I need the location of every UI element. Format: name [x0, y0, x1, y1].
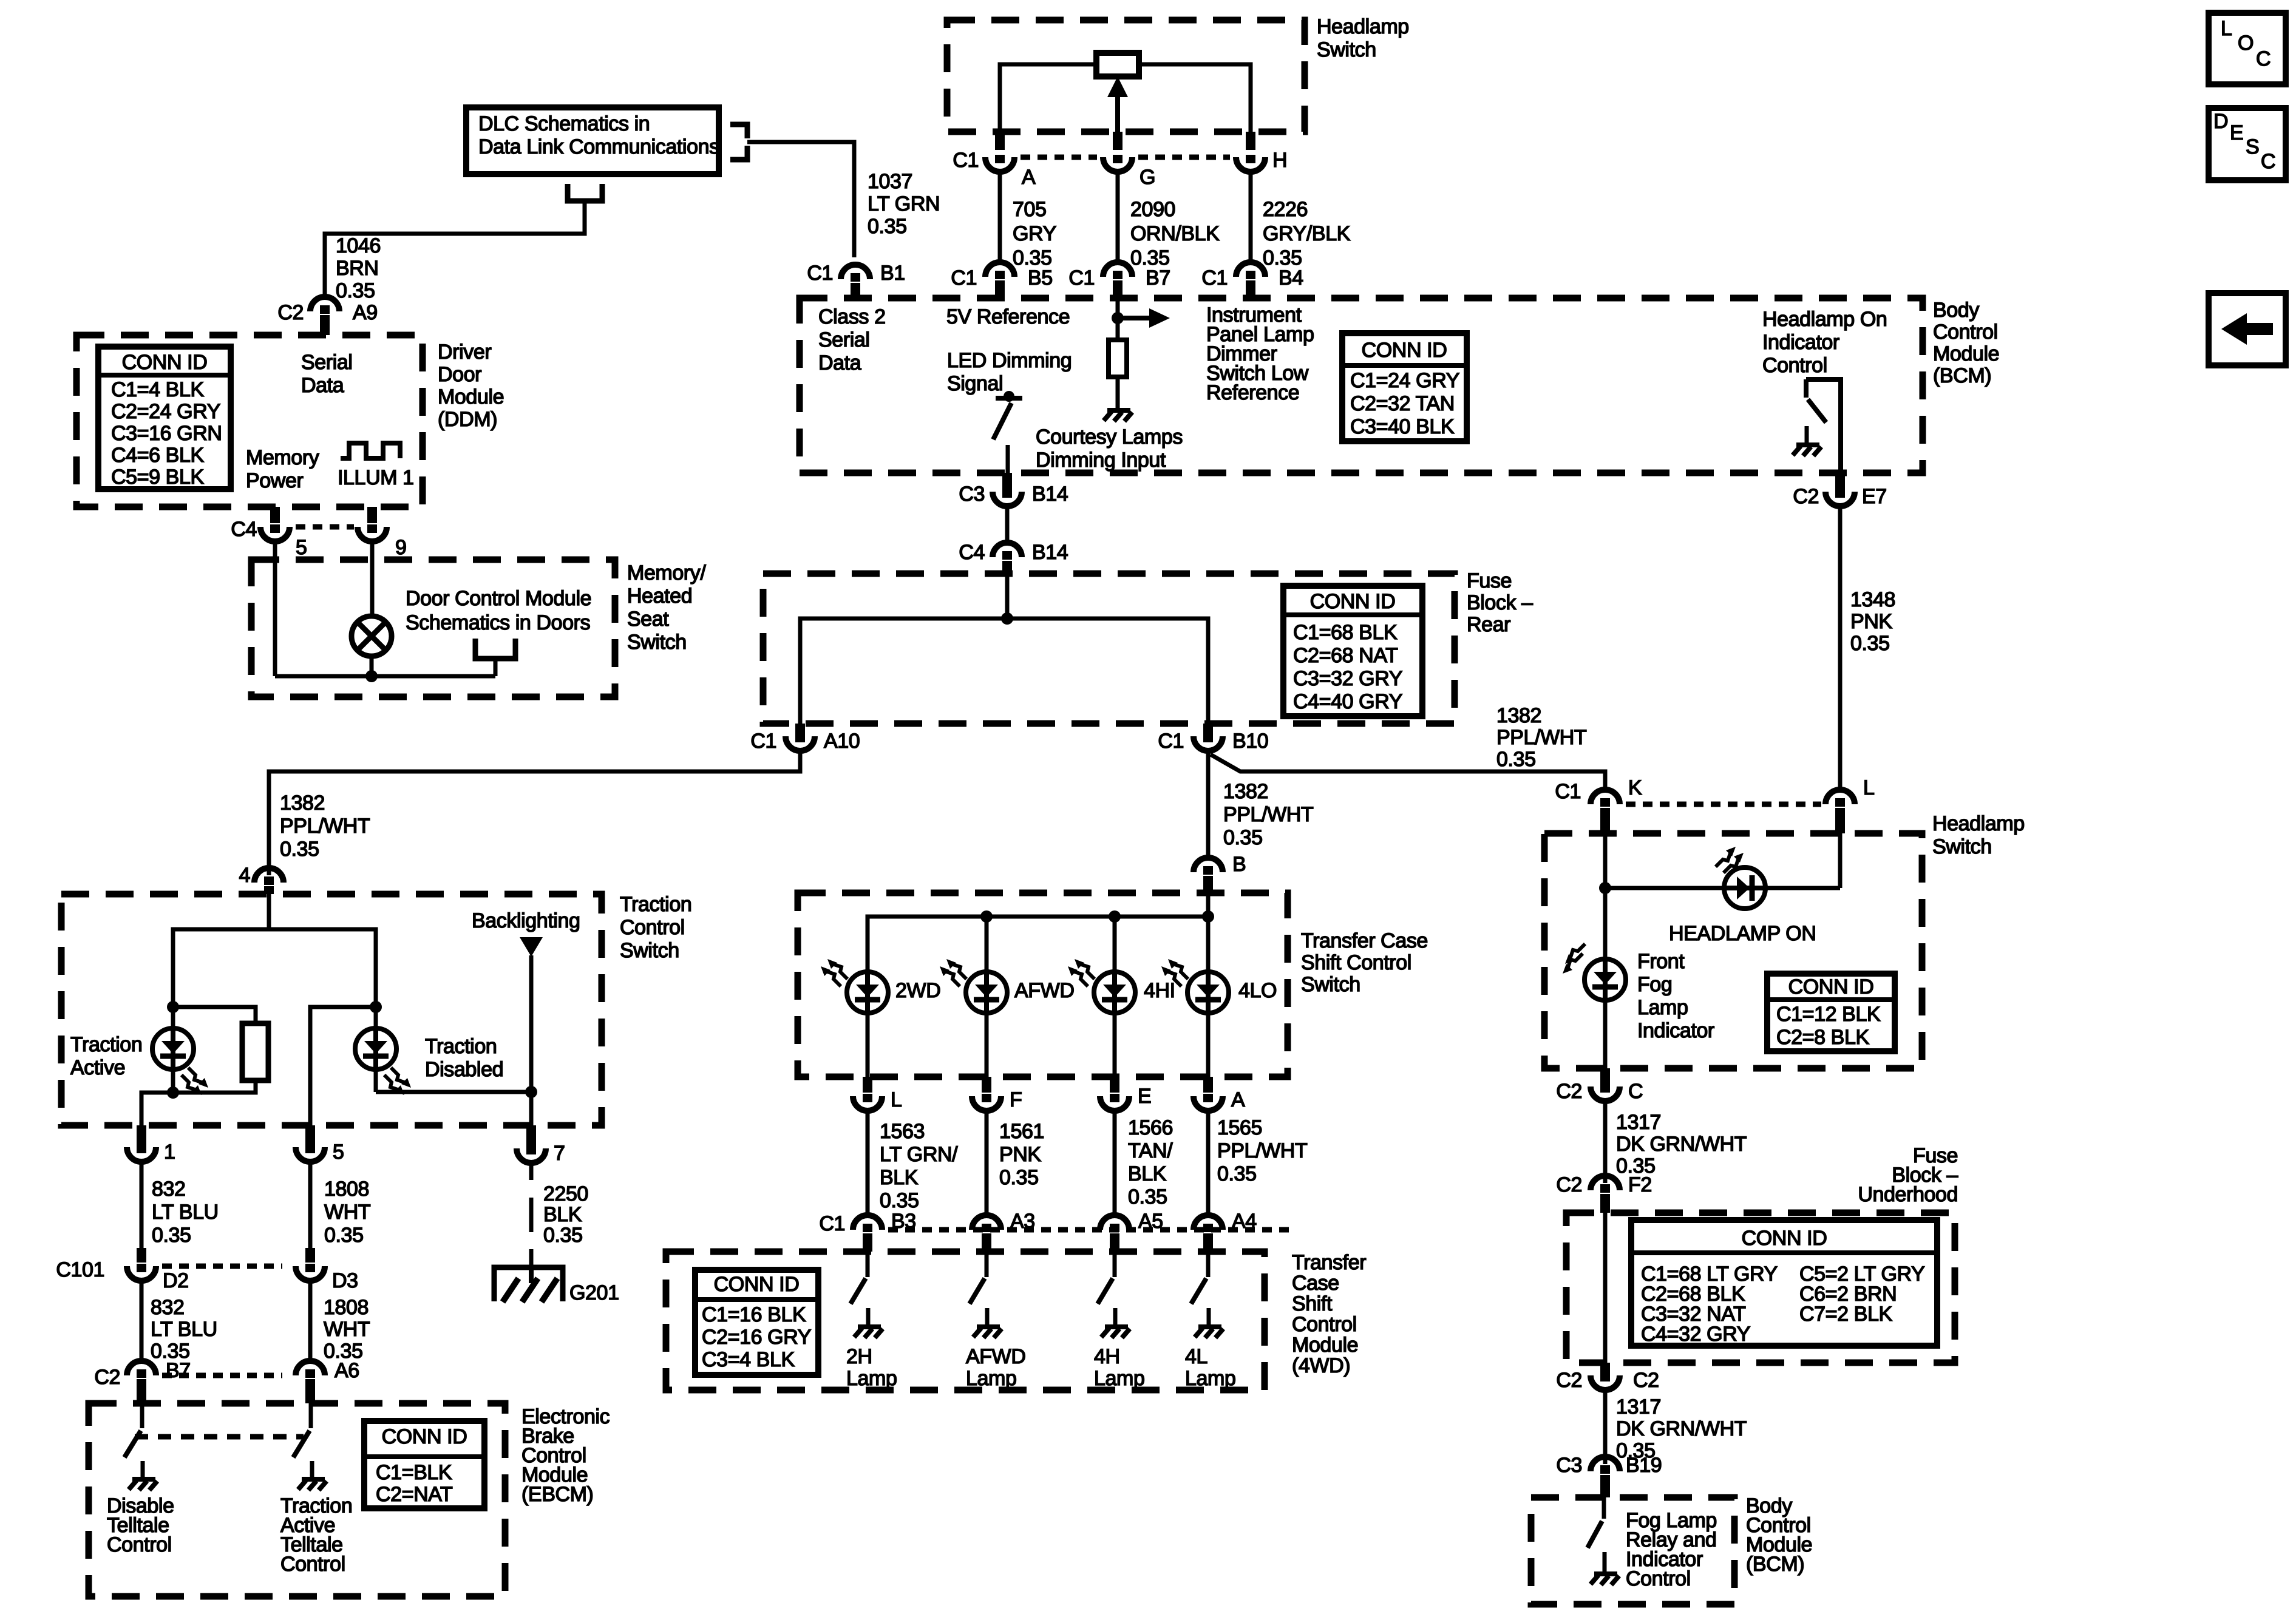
svg-text:5: 5 — [333, 1141, 344, 1164]
svg-text:C3=16 GRN: C3=16 GRN — [111, 422, 222, 445]
svg-text:L: L — [2221, 17, 2232, 40]
svg-text:C2=24 GRY: C2=24 GRY — [111, 400, 220, 423]
svg-text:1037: 1037 — [868, 170, 912, 193]
ground (courtesy lamps dimming input) — [1104, 410, 1132, 421]
svg-text:C3: C3 — [1556, 1454, 1582, 1477]
transfer case bus — [1206, 893, 1211, 917]
svg-text:Control: Control — [1626, 1567, 1691, 1590]
svg-text:BLK: BLK — [1128, 1162, 1167, 1185]
wire H to B4 — [1249, 172, 1253, 262]
2H lamp driver switch — [866, 1252, 870, 1277]
back-arrow navigation box — [2209, 293, 2286, 365]
inline dotted line A-G — [1021, 155, 1097, 160]
svg-text:5V Reference: 5V Reference — [946, 305, 1070, 328]
wire from traction disabled to backlight wire — [376, 1090, 531, 1094]
wire G to B7 — [1116, 172, 1120, 262]
EBCM CONN ID table — [364, 1421, 484, 1508]
svg-text:Control: Control — [1933, 320, 1998, 344]
inline dotted line G-H — [1138, 155, 1230, 160]
svg-text:Serial: Serial — [818, 328, 870, 351]
continuation bracket (door control module) — [475, 639, 515, 659]
svg-text:C3=40 BLK: C3=40 BLK — [1350, 415, 1455, 438]
svg-text:CONN ID: CONN ID — [1310, 590, 1396, 613]
connector A3 — [972, 1215, 1001, 1230]
svg-text:D: D — [2213, 110, 2228, 133]
svg-text:Switch: Switch — [1317, 38, 1376, 61]
wire to ground below resistor — [1116, 377, 1120, 408]
headlamp switch CONN ID table — [1767, 974, 1895, 1051]
svg-text:C1=12 BLK: C1=12 BLK — [1776, 1003, 1881, 1026]
headlamp on indicator switch (in BCM) — [1806, 379, 1841, 473]
svg-text:AFWD: AFWD — [966, 1345, 1026, 1368]
4LO LED — [1187, 972, 1229, 1013]
connector A — [1203, 1077, 1213, 1093]
svg-text:Class 2: Class 2 — [818, 305, 886, 328]
svg-text:C: C — [2256, 47, 2271, 70]
wire from DLC bracket to C1 B1 — [747, 142, 854, 257]
DDM CONN ID table — [98, 347, 231, 489]
svg-text:C1: C1 — [807, 262, 833, 285]
svg-text:GRY: GRY — [1013, 222, 1056, 245]
svg-text:Data: Data — [818, 351, 861, 375]
connector F — [982, 1077, 991, 1093]
svg-text:C3=32 GRY: C3=32 GRY — [1293, 667, 1402, 690]
svg-text:0.35: 0.35 — [1223, 826, 1263, 849]
svg-text:0.35: 0.35 — [880, 1189, 919, 1212]
svg-text:B14: B14 — [1032, 483, 1068, 506]
svg-text:K: K — [1628, 776, 1642, 799]
svg-text:C1: C1 — [819, 1212, 845, 1235]
wire to shift control module — [1113, 1111, 1117, 1215]
svg-text:LT GRN/: LT GRN/ — [880, 1143, 958, 1166]
svg-text:Indicator: Indicator — [1637, 1019, 1714, 1042]
svg-text:A4: A4 — [1232, 1210, 1257, 1233]
svg-text:0.35: 0.35 — [336, 279, 375, 302]
Headlamp Switch box (top) — [947, 20, 1305, 132]
Body Control Module box (bottom right) — [1531, 1497, 1734, 1604]
svg-text:C1=16 BLK: C1=16 BLK — [702, 1303, 806, 1326]
svg-text:CONN ID: CONN ID — [1362, 339, 1447, 362]
svg-text:C1: C1 — [1158, 730, 1184, 753]
dimmer potentiometer — [1096, 53, 1139, 76]
svg-text:WHT: WHT — [324, 1201, 370, 1224]
LED lower wire — [866, 1013, 870, 1077]
svg-text:Case: Case — [1292, 1272, 1339, 1295]
svg-text:Control: Control — [280, 1553, 345, 1576]
svg-text:HEADLAMP ON: HEADLAMP ON — [1669, 922, 1816, 945]
backlighting wire — [529, 955, 534, 1125]
svg-text:S: S — [2246, 135, 2259, 158]
svg-text:Body: Body — [1933, 299, 1979, 322]
svg-text:B7: B7 — [1146, 266, 1170, 290]
wire E7 to L — [1838, 506, 1843, 790]
svg-text:O: O — [2238, 32, 2254, 55]
svg-text:Disabled: Disabled — [425, 1058, 503, 1081]
svg-text:E: E — [2230, 121, 2243, 144]
svg-text:Switch: Switch — [627, 631, 687, 654]
svg-text:1808: 1808 — [324, 1178, 369, 1201]
svg-text:2250: 2250 — [543, 1182, 588, 1205]
svg-text:C1: C1 — [951, 266, 977, 290]
courtesy lamps junction and arrow — [1116, 298, 1120, 340]
svg-text:Rear: Rear — [1467, 613, 1510, 636]
wire D3 to A6 — [308, 1281, 313, 1361]
connector D3 — [305, 1248, 315, 1263]
4L lamp driver switch — [1206, 1252, 1211, 1277]
svg-text:Headlamp: Headlamp — [1932, 812, 2025, 835]
svg-text:0.35: 0.35 — [868, 215, 907, 238]
LED lower wire — [1206, 1013, 1211, 1077]
svg-text:705: 705 — [1013, 198, 1047, 221]
Electronic Brake Control Module box — [89, 1403, 505, 1596]
connector pin 9 (ILLUM 1) — [367, 507, 377, 523]
wire to shift control module — [985, 1111, 989, 1215]
svg-text:C1: C1 — [953, 149, 979, 172]
svg-text:Switch: Switch — [1301, 973, 1360, 996]
connector C1 B10 — [1203, 724, 1213, 736]
svg-text:PNK: PNK — [1850, 610, 1892, 633]
svg-text:Door: Door — [438, 363, 481, 386]
svg-text:0.35: 0.35 — [543, 1224, 583, 1247]
svg-text:2226: 2226 — [1263, 198, 1308, 221]
svg-text:C2: C2 — [94, 1366, 120, 1389]
connector C1 A10 — [795, 724, 805, 736]
Driver Door Module (DDM) box — [76, 335, 423, 507]
wire to shift control module — [866, 1111, 870, 1215]
svg-text:2090: 2090 — [1130, 198, 1175, 221]
connector C2 C2 — [1600, 1363, 1610, 1373]
svg-text:C4=32 GRY: C4=32 GRY — [1641, 1323, 1750, 1346]
wire through fuse block underhood — [1603, 1213, 1608, 1363]
svg-text:A10: A10 — [824, 730, 860, 753]
svg-text:G201: G201 — [569, 1281, 619, 1304]
svg-text:C1=24 GRY: C1=24 GRY — [1350, 369, 1459, 392]
LED lower wire — [985, 1013, 989, 1077]
svg-text:L: L — [891, 1088, 902, 1111]
svg-text:4: 4 — [239, 864, 250, 887]
svg-text:A: A — [1022, 166, 1036, 189]
svg-text:Shift Control: Shift Control — [1301, 951, 1411, 974]
wire to connector 1 — [141, 1093, 173, 1125]
svg-text:C2: C2 — [277, 301, 304, 324]
svg-text:(BCM): (BCM) — [1746, 1553, 1804, 1576]
resistor parallel to traction active LED — [173, 1007, 256, 1023]
pot wiper arrow — [1115, 95, 1120, 146]
svg-text:Data: Data — [301, 374, 344, 397]
Body Control Module (BCM) box — [800, 298, 1923, 473]
connector H — [1246, 132, 1255, 150]
svg-text:C1=4 BLK: C1=4 BLK — [111, 378, 204, 401]
svg-text:5: 5 — [296, 536, 307, 559]
Memory/Heated Seat Switch box — [251, 560, 615, 697]
connector C2 E7 — [1835, 473, 1845, 489]
svg-text:C7=2 BLK: C7=2 BLK — [1799, 1303, 1892, 1326]
switch contact + ground (headlamp on indicator) — [1805, 426, 1809, 443]
svg-text:Headlamp: Headlamp — [1317, 15, 1409, 38]
pot right wire — [1139, 64, 1251, 132]
svg-text:CONN ID: CONN ID — [122, 351, 208, 374]
svg-text:CONN ID: CONN ID — [714, 1273, 800, 1296]
svg-text:C1: C1 — [1201, 266, 1228, 290]
svg-text:A6: A6 — [335, 1359, 359, 1382]
svg-text:Module: Module — [1933, 342, 1999, 365]
disable telltale switch — [140, 1403, 144, 1428]
svg-text:Block –: Block – — [1467, 591, 1533, 614]
svg-text:PPL/WHT: PPL/WHT — [1496, 726, 1586, 749]
svg-text:B: B — [1232, 853, 1246, 876]
wire up to continuation bracket — [494, 659, 498, 676]
fog lamp relay switch — [1602, 1497, 1606, 1519]
svg-text:(BCM): (BCM) — [1933, 364, 1991, 387]
svg-text:C2: C2 — [1633, 1369, 1659, 1392]
svg-text:4L: 4L — [1185, 1345, 1207, 1368]
svg-text:7: 7 — [554, 1142, 565, 1165]
shift control module CONN ID table — [695, 1270, 818, 1375]
svg-text:L: L — [1863, 776, 1875, 799]
connector C1 A (headlamp switch) — [995, 132, 1005, 150]
svg-text:C2=8 BLK: C2=8 BLK — [1776, 1026, 1869, 1049]
svg-text:1566: 1566 — [1128, 1116, 1173, 1139]
inline dotted line K-L — [1626, 802, 1821, 807]
svg-text:C4: C4 — [959, 541, 985, 564]
square-wave symbol above ILLUM 1 — [341, 443, 400, 458]
wire B10 to headlamp switch K — [1211, 754, 1605, 790]
inline dotted line transfer case row — [888, 1227, 1293, 1233]
svg-text:BLK: BLK — [543, 1203, 582, 1226]
AFWD lamp driver switch — [985, 1252, 989, 1277]
svg-text:1808: 1808 — [324, 1296, 369, 1319]
svg-text:Module: Module — [438, 385, 504, 408]
svg-text:E7: E7 — [1862, 485, 1887, 508]
svg-text:WHT: WHT — [324, 1318, 370, 1341]
AFWD LED — [966, 972, 1007, 1013]
svg-text:LT GRN: LT GRN — [868, 192, 940, 215]
svg-text:H: H — [1272, 149, 1287, 172]
traction active LED branch — [171, 1007, 175, 1093]
svg-text:A9: A9 — [353, 301, 378, 324]
svg-text:C2=16 GRY: C2=16 GRY — [702, 1326, 811, 1349]
svg-text:0.35: 0.35 — [280, 838, 319, 861]
svg-text:DK GRN/WHT: DK GRN/WHT — [1616, 1133, 1747, 1156]
svg-text:B1: B1 — [880, 262, 905, 285]
svg-text:F: F — [1010, 1088, 1022, 1111]
Fuse Block - Rear box — [763, 574, 1455, 724]
svg-text:PPL/WHT: PPL/WHT — [280, 815, 370, 838]
svg-text:C2=32 TAN: C2=32 TAN — [1350, 392, 1455, 415]
svg-text:Indicator: Indicator — [1762, 331, 1839, 354]
connector 5 — [305, 1125, 315, 1145]
svg-text:1565: 1565 — [1217, 1116, 1262, 1139]
svg-text:0.35: 0.35 — [1128, 1185, 1167, 1209]
svg-text:TAN/: TAN/ — [1128, 1139, 1173, 1162]
svg-text:ILLUM 1: ILLUM 1 — [338, 466, 414, 489]
svg-text:1: 1 — [164, 1141, 175, 1164]
connector L (transfer case) — [863, 1077, 872, 1093]
fuse block rear internal bus — [1005, 574, 1010, 619]
junction at lamp bottom — [365, 670, 378, 682]
svg-text:C1: C1 — [750, 730, 776, 753]
svg-text:C1=68 BLK: C1=68 BLK — [1293, 621, 1398, 644]
connector C4 B14 — [993, 543, 1022, 557]
svg-text:B19: B19 — [1626, 1454, 1662, 1477]
svg-text:1046: 1046 — [336, 234, 381, 257]
HEADLAMP ON LED — [1724, 867, 1765, 909]
4HI LED — [1094, 972, 1135, 1013]
svg-text:C2: C2 — [1556, 1173, 1582, 1196]
svg-text:1317: 1317 — [1616, 1111, 1661, 1134]
connector 7 — [526, 1125, 536, 1146]
svg-text:Memory/: Memory/ — [627, 561, 706, 585]
svg-text:C101: C101 — [56, 1258, 104, 1281]
inline dotted line B7-A6 — [162, 1373, 282, 1378]
junction dots traction bus — [167, 1001, 179, 1013]
connector C101 D2 — [137, 1248, 146, 1263]
LED dimming signal switch — [1004, 391, 1014, 402]
svg-text:F2: F2 — [1628, 1173, 1652, 1196]
traction disabled LED branch — [310, 1007, 376, 1125]
lamp bottom wire and bus — [370, 656, 374, 676]
svg-text:C2: C2 — [1793, 485, 1819, 508]
svg-text:A3: A3 — [1010, 1210, 1035, 1233]
svg-text:2H: 2H — [846, 1345, 872, 1368]
Traction Control Switch box — [61, 894, 602, 1125]
traction active telltale switch — [309, 1403, 313, 1428]
svg-text:0.35: 0.35 — [1850, 632, 1890, 655]
svg-text:Seat: Seat — [627, 608, 669, 631]
Transfer Case Shift Control Module box — [666, 1252, 1265, 1390]
wire C2 to B19 — [1603, 1390, 1608, 1464]
svg-text:Dimming Input: Dimming Input — [1036, 449, 1166, 472]
svg-text:LT BLU: LT BLU — [151, 1318, 217, 1341]
svg-text:1561: 1561 — [999, 1120, 1044, 1143]
svg-text:0.35: 0.35 — [1496, 748, 1536, 771]
svg-text:Switch: Switch — [620, 939, 679, 962]
wire from 9 to illumination lamp — [370, 541, 375, 617]
svg-text:Reference: Reference — [1206, 381, 1299, 404]
svg-text:BRN: BRN — [336, 257, 379, 280]
svg-text:0.35: 0.35 — [152, 1224, 191, 1247]
svg-text:Switch: Switch — [1932, 835, 1992, 858]
svg-text:C1=BLK: C1=BLK — [376, 1461, 452, 1484]
svg-text:1563: 1563 — [880, 1120, 925, 1143]
wire to shift control module — [1206, 1111, 1211, 1215]
svg-text:Traction: Traction — [620, 893, 691, 916]
svg-text:2WD: 2WD — [895, 979, 940, 1002]
svg-text:DLC Schematics in: DLC Schematics in — [478, 112, 650, 135]
svg-text:B4: B4 — [1279, 266, 1303, 290]
svg-text:LED Dimming: LED Dimming — [947, 349, 1072, 372]
backlighting antenna triangle — [520, 937, 543, 957]
Fuse Block - Underhood box — [1566, 1213, 1955, 1363]
svg-text:Shift: Shift — [1292, 1292, 1333, 1315]
svg-text:Serial: Serial — [301, 351, 353, 374]
wire 1 to C101 — [140, 1162, 144, 1248]
svg-text:B10: B10 — [1232, 730, 1268, 753]
svg-text:Control: Control — [620, 916, 685, 939]
svg-text:1382: 1382 — [1496, 704, 1541, 727]
svg-text:C: C — [1628, 1080, 1643, 1103]
svg-text:Memory: Memory — [246, 446, 319, 469]
DLC Schematics reference box — [466, 107, 719, 174]
connector C3 B14 — [1002, 473, 1012, 489]
svg-text:0.35: 0.35 — [1217, 1162, 1257, 1185]
svg-text:4HI: 4HI — [1144, 979, 1175, 1002]
svg-text:Fog: Fog — [1637, 973, 1672, 996]
svg-text:4H: 4H — [1094, 1345, 1120, 1368]
Headlamp Switch box (right) — [1544, 833, 1922, 1068]
connector G — [1113, 132, 1123, 150]
svg-text:C: C — [2261, 150, 2275, 173]
svg-text:C1: C1 — [1555, 780, 1581, 803]
svg-text:D3: D3 — [332, 1269, 358, 1292]
svg-text:4LO: 4LO — [1238, 979, 1277, 1002]
2WD LED — [847, 972, 888, 1013]
svg-text:C2: C2 — [1556, 1369, 1582, 1392]
fuse block underhood CONN ID table — [1631, 1220, 1937, 1346]
svg-text:A5: A5 — [1138, 1210, 1163, 1233]
svg-text:Traction: Traction — [425, 1035, 497, 1058]
svg-text:Front: Front — [1637, 950, 1685, 973]
svg-text:Lamp: Lamp — [1185, 1367, 1235, 1390]
svg-text:1348: 1348 — [1850, 588, 1895, 611]
fuse block rear CONN ID table — [1283, 586, 1422, 716]
BCM CONN ID table — [1342, 333, 1467, 441]
svg-text:Control: Control — [107, 1533, 172, 1556]
svg-text:C2: C2 — [1556, 1080, 1582, 1103]
wire from C4-5 to memory seat switch — [273, 541, 277, 676]
svg-text:Door Control Module: Door Control Module — [406, 587, 591, 610]
connector A4 — [1194, 1215, 1223, 1230]
svg-text:Module: Module — [1292, 1334, 1358, 1357]
svg-text:1382: 1382 — [1223, 780, 1268, 803]
connector C2 C — [1600, 1068, 1610, 1084]
svg-text:Lamp: Lamp — [966, 1367, 1016, 1390]
svg-text:PPL/WHT: PPL/WHT — [1217, 1139, 1307, 1162]
svg-text:Control: Control — [1762, 354, 1827, 377]
svg-text:B5: B5 — [1028, 266, 1053, 290]
mechanical link dashed line — [135, 1434, 304, 1440]
svg-text:B7: B7 — [166, 1359, 191, 1382]
svg-text:Transfer: Transfer — [1292, 1251, 1366, 1274]
4H lamp driver switch — [1113, 1252, 1117, 1277]
svg-text:PPL/WHT: PPL/WHT — [1223, 803, 1313, 826]
svg-text:LT BLU: LT BLU — [152, 1201, 219, 1224]
svg-text:Underhood: Underhood — [1858, 1183, 1958, 1206]
wire C to F2 — [1603, 1101, 1608, 1183]
svg-text:CONN ID: CONN ID — [1742, 1227, 1827, 1250]
Transfer Case Shift Control Switch box — [798, 893, 1288, 1077]
svg-text:Power: Power — [246, 469, 303, 492]
bracket on right of DLC box — [730, 124, 747, 138]
pot left wire — [1000, 64, 1096, 132]
ground G201 — [494, 1267, 563, 1302]
svg-text:Control: Control — [1292, 1313, 1357, 1336]
svg-text:Headlamp On: Headlamp On — [1762, 308, 1887, 331]
svg-text:832: 832 — [152, 1178, 186, 1201]
wire fog LED to box bottom — [1603, 1000, 1608, 1068]
svg-text:0.35: 0.35 — [999, 1166, 1039, 1189]
svg-text:Lamp: Lamp — [1637, 996, 1688, 1019]
svg-text:B14: B14 — [1032, 541, 1068, 564]
svg-text:GRY/BLK: GRY/BLK — [1263, 222, 1351, 245]
svg-text:C4: C4 — [231, 518, 257, 541]
wire A to B5 — [998, 172, 1002, 262]
svg-text:1382: 1382 — [280, 792, 325, 815]
svg-text:CONN ID: CONN ID — [382, 1425, 467, 1448]
svg-text:Lamp: Lamp — [846, 1367, 897, 1390]
svg-text:Traction: Traction — [70, 1033, 142, 1056]
illumination lamp symbol — [352, 616, 392, 656]
